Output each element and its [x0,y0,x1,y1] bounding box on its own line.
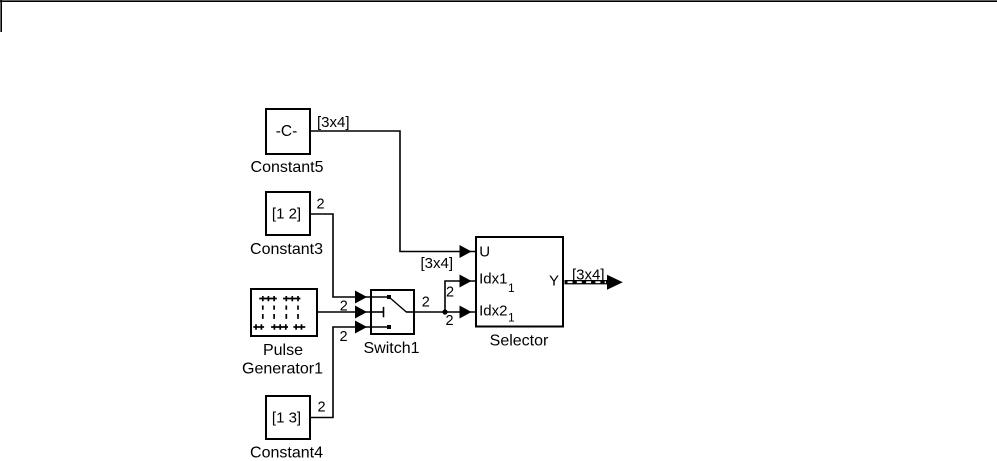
top pulse segment 2 with ticks [283,298,300,300]
block Constant3 [266,192,310,235]
dashed vertical edges of pulse [263,306,298,319]
wire branch junction to Selector Idx1 [445,281,476,312]
svg-text:Idx1: Idx1 [479,270,507,287]
svg-text:2: 2 [340,329,348,345]
svg-text:2: 2 [340,299,348,315]
svg-text:Constant5: Constant5 [251,159,324,176]
arrowhead into Switch1 input 3 [355,321,367,334]
wire Pulse Generator1 to Switch1 input 2 [318,311,372,313]
arrowhead on Y output [607,275,623,290]
switch output stub [406,311,415,313]
bottom pulse segment 1 with ticks [253,326,264,328]
bottom pulse segment 2 with ticks [271,326,288,328]
junction dot on Switch1 output [442,309,447,314]
svg-text:Generator1: Generator1 [242,361,323,378]
arrowhead into Selector Idx2 [460,306,472,319]
svg-text:Selector: Selector [490,333,549,350]
svg-text:2: 2 [317,197,325,213]
wire Switch1 to Selector Idx2 [415,311,476,313]
block Constant5 [266,109,310,154]
arrowhead into Switch1 input 1 [355,291,367,304]
svg-text:[3x4]: [3x4] [572,267,605,284]
svg-text:Idx2: Idx2 [479,302,507,319]
svg-text:U: U [479,243,490,260]
svg-text:1: 1 [508,281,515,295]
switch contact dot bottom [387,325,391,329]
switch input stub 3 [371,326,389,328]
wire Constant4 to Switch1 input 3 [311,327,372,418]
switch threshold bar [383,307,385,317]
switch selector arm (diagonal) [389,297,406,312]
svg-text:-C-: -C- [276,123,298,140]
top pulse segment 1 with ticks [259,298,277,300]
svg-text:Y: Y [549,273,559,290]
arrowhead into Selector U [460,245,472,258]
switch control stub [371,311,383,313]
block Pulse Generator1 [251,289,317,336]
block Selector [476,237,563,327]
output signal Y thick line [565,280,609,284]
svg-text:[1 3]: [1 3] [272,410,301,427]
block Switch1 [371,290,415,334]
arrowhead into Selector Idx1 [460,275,472,288]
svg-text:2: 2 [422,295,430,311]
svg-text:1: 1 [508,311,515,325]
svg-text:[1 2]: [1 2] [272,206,301,223]
switch input stub 1 [371,296,389,298]
bottom pulse segment 3 with ticks [293,326,305,328]
svg-text:[3x4]: [3x4] [317,114,350,131]
switch contact dot top [387,295,391,299]
wire Constant3 to Switch1 input 1 [311,214,372,297]
block Constant4 [266,396,310,439]
svg-text:Switch1: Switch1 [363,340,419,357]
svg-text:[3x4]: [3x4] [421,255,454,272]
svg-text:2: 2 [446,313,454,329]
svg-text:Pulse: Pulse [263,342,303,359]
arrowhead into Switch1 input 2 [355,306,367,319]
svg-text:Constant4: Constant4 [250,445,323,461]
svg-text:2: 2 [318,400,326,416]
svg-text:Constant3: Constant3 [250,241,323,258]
svg-text:2: 2 [446,285,454,301]
wire Constant5 to Selector U [311,131,476,252]
